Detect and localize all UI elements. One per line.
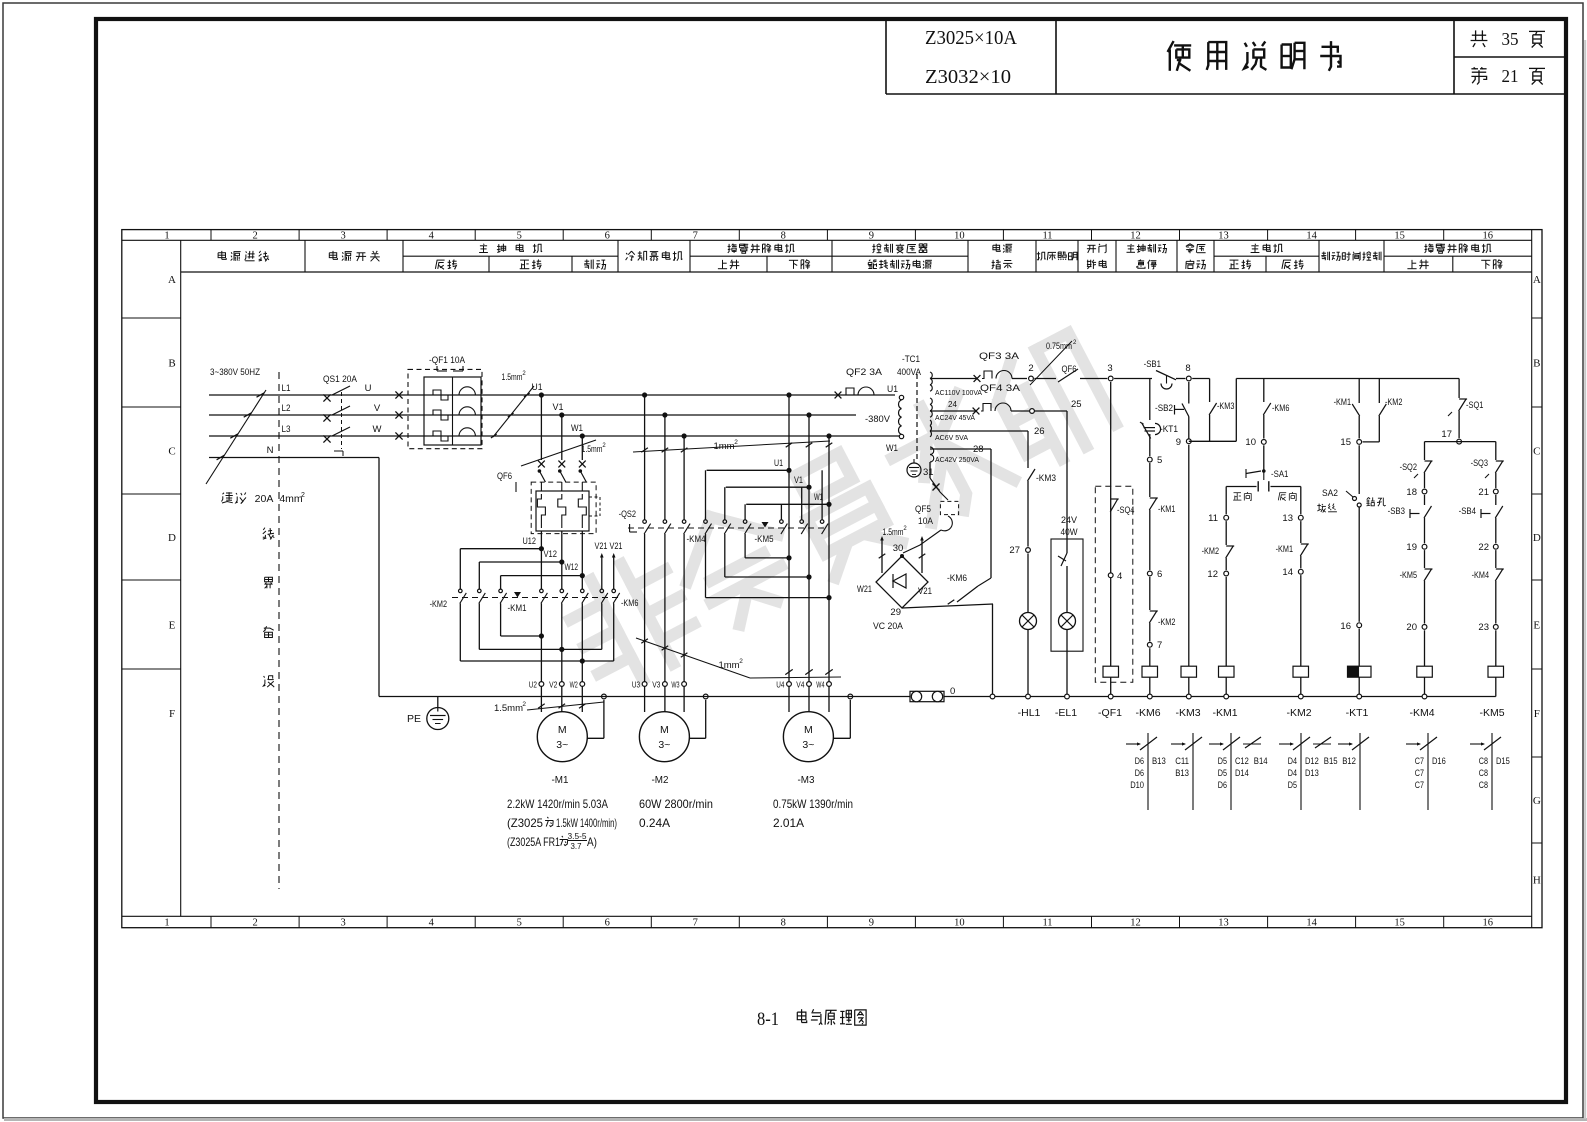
svg-text:-SQ3: -SQ3 <box>1471 458 1488 469</box>
svg-text:-KM2: -KM2 <box>430 599 447 610</box>
svg-text:AC6V 5VA: AC6V 5VA <box>935 433 968 442</box>
svg-text:16: 16 <box>1482 918 1493 929</box>
coil KM1 <box>1219 666 1235 677</box>
svg-text:C7: C7 <box>1415 780 1424 790</box>
svg-text:B: B <box>168 358 175 370</box>
branch 13 KM1 NC to coil KM2 <box>1300 487 1302 515</box>
svg-text:-KT1: -KT1 <box>1160 424 1178 435</box>
contact KM5 NC interlock <box>1424 550 1426 568</box>
svg-text:D5: D5 <box>1218 768 1227 778</box>
svg-text:C12: C12 <box>1235 756 1249 766</box>
svg-text:-QF1: -QF1 <box>1098 707 1122 719</box>
supply boundary dashed line <box>278 372 280 889</box>
svg-text:0: 0 <box>950 686 955 697</box>
svg-text:L3: L3 <box>282 424 291 435</box>
svg-text:9: 9 <box>1176 437 1181 448</box>
svg-text:C8: C8 <box>1479 768 1488 778</box>
svg-text:26: 26 <box>1034 426 1045 437</box>
svg-text:-KM4: -KM4 <box>1472 570 1489 581</box>
earth symbol 31 <box>907 463 921 477</box>
title block <box>885 21 887 94</box>
svg-text:M: M <box>558 724 567 736</box>
svg-text:Z3032×10: Z3032×10 <box>925 66 1011 88</box>
header label 下降 <box>789 260 810 269</box>
rail net9 right section <box>1236 378 1459 380</box>
svg-text:-KM1: -KM1 <box>1158 504 1175 515</box>
svg-text:21: 21 <box>1502 66 1519 86</box>
svg-text:G: G <box>1533 795 1541 807</box>
svg-text:V21: V21 <box>595 541 608 551</box>
svg-text:W3: W3 <box>671 680 679 690</box>
svg-text:2: 2 <box>1028 363 1033 374</box>
svg-text:3.7: 3.7 <box>571 841 582 851</box>
svg-text:6: 6 <box>1157 569 1162 580</box>
wire L1 <box>209 394 895 396</box>
header label 正转 <box>520 259 542 269</box>
svg-text:D4: D4 <box>1288 768 1297 778</box>
svg-text:2: 2 <box>522 701 526 708</box>
svg-text:18: 18 <box>1406 487 1417 498</box>
svg-text:D6: D6 <box>1218 780 1227 790</box>
svg-text:QF4 3A: QF4 3A <box>980 383 1021 394</box>
arm motor feeder taps U1 V1 W1 <box>786 392 791 397</box>
motor breaker QF6 and M1 feeder <box>540 395 542 460</box>
pushbutton SB3 <box>1424 495 1426 505</box>
header label 上升 <box>718 260 739 269</box>
svg-text:13: 13 <box>1218 230 1229 241</box>
svg-text:4: 4 <box>429 230 435 241</box>
svg-text:11: 11 <box>1042 230 1052 241</box>
svg-text:19: 19 <box>1406 542 1417 553</box>
svg-text:D4: D4 <box>1288 756 1297 766</box>
svg-text:8: 8 <box>781 918 786 929</box>
node 9 <box>1186 439 1191 444</box>
M3 earth link <box>848 694 853 699</box>
svg-text:24V: 24V <box>1061 515 1078 526</box>
wire N <box>209 457 379 459</box>
timer contact KT1 <box>1149 379 1151 421</box>
TC1 primary winding <box>899 395 903 399</box>
svg-text:QS1 20A: QS1 20A <box>323 374 358 385</box>
svg-text:28: 28 <box>973 444 984 455</box>
svg-text:C11: C11 <box>1175 756 1189 766</box>
svg-text:1.5mm: 1.5mm <box>883 527 904 537</box>
svg-text:20: 20 <box>1406 622 1417 633</box>
svg-text:6: 6 <box>605 230 610 241</box>
header label 急停 <box>1136 260 1156 270</box>
svg-text:D5: D5 <box>1218 756 1227 766</box>
svg-text:-KM3: -KM3 <box>1175 707 1200 719</box>
svg-text:1.5mm: 1.5mm <box>502 372 523 382</box>
node 30 wire 28 <box>930 448 991 450</box>
svg-text:16: 16 <box>1340 621 1351 632</box>
svg-text:-QS2: -QS2 <box>619 509 636 520</box>
svg-text:E: E <box>169 620 176 632</box>
svg-text:-M3: -M3 <box>798 774 815 786</box>
svg-text:22: 22 <box>1478 542 1489 553</box>
svg-text:12: 12 <box>1130 230 1141 241</box>
node 3 <box>1108 376 1113 381</box>
svg-text:60W 2800r/min: 60W 2800r/min <box>639 797 713 811</box>
contact KM6 NO column 10 <box>1263 379 1265 403</box>
undervoltage QF1 column with SQ4 <box>1110 382 1112 666</box>
svg-text:F: F <box>1534 708 1540 720</box>
coil KM3 <box>1181 666 1197 677</box>
svg-text:Z3025×10A: Z3025×10A <box>925 27 1018 49</box>
svg-text:W1: W1 <box>886 443 898 454</box>
header label 断电 <box>1087 260 1107 269</box>
svg-text:F: F <box>169 708 175 720</box>
contactor KM2 main contacts <box>459 589 463 593</box>
svg-text:35: 35 <box>1502 29 1519 49</box>
svg-text:24: 24 <box>948 399 957 409</box>
svg-text:3~: 3~ <box>658 739 670 751</box>
bus junction circles <box>1108 694 1113 699</box>
coil KM6 <box>1142 666 1158 677</box>
wire 26 6V <box>930 430 1028 432</box>
header label 电源开关 <box>329 251 380 261</box>
svg-text:4mm: 4mm <box>279 493 303 505</box>
contactor KM5 main contacts <box>780 504 782 520</box>
svg-text:-SB3: -SB3 <box>1388 506 1405 517</box>
svg-text:QF5: QF5 <box>915 504 931 515</box>
svg-text:-M1: -M1 <box>552 774 569 786</box>
svg-text:M: M <box>804 724 813 736</box>
node 8 <box>1186 376 1191 381</box>
svg-text:15: 15 <box>1394 230 1405 241</box>
selector SA2 tapping drilling <box>1358 445 1360 494</box>
pushbutton SB4 <box>1495 495 1497 505</box>
contact KM4 NC interlock <box>1495 550 1497 568</box>
cable marks before QF1 <box>395 391 402 398</box>
svg-text:-KM2: -KM2 <box>1158 617 1175 628</box>
svg-text:1: 1 <box>164 918 169 929</box>
motor M1 <box>537 712 587 762</box>
svg-text:14: 14 <box>1282 567 1293 578</box>
svg-text:-KM1: -KM1 <box>1276 544 1293 555</box>
header label 启动 <box>1186 260 1206 269</box>
cable 1mm2 marks lower <box>636 638 750 678</box>
svg-text:-KT1: -KT1 <box>1346 707 1369 719</box>
node 2 and switch QF6 control <box>1029 376 1034 381</box>
drawing frame <box>122 230 1542 928</box>
svg-text:1mm: 1mm <box>718 660 739 671</box>
svg-text:C: C <box>1533 446 1540 458</box>
svg-text:-HL1: -HL1 <box>1018 707 1041 719</box>
svg-text:L2: L2 <box>282 403 291 414</box>
svg-text:14: 14 <box>1306 918 1317 929</box>
title 使用说明书 <box>1168 41 1341 71</box>
svg-text:U2: U2 <box>529 680 537 690</box>
svg-text:7: 7 <box>693 230 698 241</box>
indicator lamp HL1 <box>1020 613 1037 630</box>
svg-text:1.5mm: 1.5mm <box>582 444 603 454</box>
watermark 非会员水印 <box>558 331 1119 696</box>
svg-text:L1: L1 <box>282 383 291 394</box>
svg-text:-380V: -380V <box>865 414 891 425</box>
svg-text:-TC1: -TC1 <box>902 354 920 365</box>
svg-text:15: 15 <box>1394 918 1405 929</box>
svg-text:C8: C8 <box>1479 780 1488 790</box>
coil QF1 <box>1103 666 1119 677</box>
svg-text:-KM6: -KM6 <box>947 573 967 584</box>
svg-text:U1: U1 <box>774 458 783 469</box>
svg-text:D14: D14 <box>1235 768 1249 778</box>
svg-text:D10: D10 <box>1130 780 1144 790</box>
svg-text:V1: V1 <box>553 402 564 413</box>
reversing bottom loop wires <box>501 635 542 637</box>
svg-text:5: 5 <box>517 230 522 241</box>
svg-text:1.5mm: 1.5mm <box>494 703 523 714</box>
svg-text:C8: C8 <box>1479 756 1488 766</box>
selector SA1 <box>1262 469 1266 473</box>
coil KT1 timer <box>1348 666 1372 677</box>
header label 下降 <box>1481 260 1502 269</box>
svg-text:1.5kW 1400r/min): 1.5kW 1400r/min) <box>556 816 617 830</box>
svg-text:10: 10 <box>1245 437 1256 448</box>
svg-text:15: 15 <box>1340 437 1351 448</box>
contact KM6 braking <box>902 604 993 608</box>
svg-text:-SQ2: -SQ2 <box>1400 462 1417 473</box>
svg-text:-KM6: -KM6 <box>621 598 638 609</box>
svg-text:W2: W2 <box>570 680 578 690</box>
contact KM2 NC in KM6 column <box>1149 577 1151 610</box>
svg-text:V4: V4 <box>796 680 804 690</box>
branch 11 KM2 NC to coil KM1 <box>1225 487 1227 515</box>
wire L2 <box>209 414 856 416</box>
cable 1mm2 marks upper <box>633 441 830 452</box>
svg-text:U3: U3 <box>632 680 640 690</box>
svg-text:7: 7 <box>693 918 698 929</box>
svg-text:-QF1 10A: -QF1 10A <box>429 355 466 366</box>
machine light EL1 box <box>1066 411 1068 553</box>
svg-text:10: 10 <box>954 918 965 929</box>
svg-text:V3: V3 <box>652 680 660 690</box>
svg-text:10A: 10A <box>918 516 934 527</box>
svg-text:3: 3 <box>340 918 345 929</box>
svg-text:2.2kW 1420r/min 5.03A: 2.2kW 1420r/min 5.03A <box>507 797 608 811</box>
header label 正转 <box>1229 259 1251 269</box>
svg-text:W12: W12 <box>565 562 579 573</box>
svg-text:QF2 3A: QF2 3A <box>846 367 883 378</box>
svg-text:-M2: -M2 <box>652 774 669 786</box>
svg-text:QF3 3A: QF3 3A <box>979 351 1020 362</box>
svg-text:29: 29 <box>890 607 901 618</box>
svg-text:-SQ1: -SQ1 <box>1466 400 1483 411</box>
svg-text:V2: V2 <box>549 680 557 690</box>
svg-text:21: 21 <box>1478 487 1489 498</box>
header label 制动时间控制 <box>1321 252 1381 261</box>
svg-text:B12: B12 <box>1342 756 1356 766</box>
svg-text:-KM3: -KM3 <box>1217 401 1234 412</box>
coil KM5 <box>1488 666 1504 677</box>
coil KM4 <box>1417 666 1433 677</box>
boundary text 建议20A 4mm2 <box>222 492 247 503</box>
svg-text:2: 2 <box>734 439 738 446</box>
svg-text:A: A <box>168 274 176 286</box>
wire L3 <box>209 435 899 437</box>
svg-text:D6: D6 <box>1135 756 1144 766</box>
svg-text:V21: V21 <box>610 541 623 551</box>
svg-text:D12: D12 <box>1305 756 1319 766</box>
svg-text:V21: V21 <box>918 586 932 597</box>
svg-text:D16: D16 <box>1432 756 1446 766</box>
svg-text:W: W <box>373 424 382 435</box>
contact KM1 NO to node 15 <box>1358 379 1360 404</box>
svg-text:QF6: QF6 <box>497 471 512 482</box>
svg-text:3~380V 50HZ: 3~380V 50HZ <box>210 367 260 378</box>
svg-text:3.5-5: 3.5-5 <box>568 831 587 841</box>
pages 共35页 <box>1471 30 1488 47</box>
node 7 <box>1147 642 1152 647</box>
svg-text:2: 2 <box>252 230 257 241</box>
svg-text:-KM6: -KM6 <box>1272 403 1289 414</box>
wire N drop and 0 bus <box>378 458 380 697</box>
pages 第21页 <box>1471 67 1486 84</box>
svg-text:H: H <box>1533 875 1541 887</box>
header table <box>181 271 1532 273</box>
svg-text:3~: 3~ <box>802 739 814 751</box>
contactor KM1 main contacts <box>540 549 542 589</box>
arm raise lower branches <box>1425 441 1496 443</box>
header label 零压 <box>1186 244 1206 254</box>
svg-text:5: 5 <box>517 918 522 929</box>
svg-text:-SA1: -SA1 <box>1271 469 1288 480</box>
svg-text:D13: D13 <box>1305 768 1319 778</box>
header label 主轴制动 <box>1127 244 1167 253</box>
limit switch SQ3 <box>1495 442 1497 460</box>
svg-text:W1: W1 <box>571 423 583 434</box>
header label 上升 <box>1407 260 1428 269</box>
header label 电源 <box>993 244 1012 253</box>
svg-text:3: 3 <box>340 230 345 241</box>
motor M3 <box>783 712 833 762</box>
header label 机床照明 <box>1037 252 1077 261</box>
svg-text:-KM1: -KM1 <box>1212 707 1237 719</box>
svg-text:17: 17 <box>1441 429 1452 440</box>
svg-text:U12: U12 <box>523 536 537 547</box>
svg-text:D15: D15 <box>1496 756 1510 766</box>
svg-text:-KM3: -KM3 <box>1036 473 1056 484</box>
cable mark 0.75mm2 <box>1030 341 1072 385</box>
svg-text:10: 10 <box>954 230 965 241</box>
svg-text:40W: 40W <box>1061 527 1078 538</box>
svg-text:U1: U1 <box>887 384 898 395</box>
limit switch SQ1 column 17 <box>1458 379 1460 399</box>
svg-text:C7: C7 <box>1415 756 1424 766</box>
svg-text:9: 9 <box>869 918 874 929</box>
header label 指示 <box>992 260 1013 269</box>
svg-text:M: M <box>660 724 669 736</box>
svg-text:V12: V12 <box>544 549 558 560</box>
TC1 secondary windings <box>930 372 932 378</box>
motor M2 terminals U3 V3 W3 <box>642 682 647 687</box>
relay contact KM3 selfhold <box>1209 379 1211 403</box>
svg-text:2.01A: 2.01A <box>773 816 804 830</box>
svg-text:D: D <box>168 532 176 544</box>
svg-text:6: 6 <box>605 918 610 929</box>
rectifier bridge VC <box>900 554 904 558</box>
svg-text:-KM5: -KM5 <box>755 534 774 545</box>
svg-text:8: 8 <box>781 230 786 241</box>
svg-text:VC 20A: VC 20A <box>873 621 904 632</box>
svg-text:25: 25 <box>1071 399 1082 410</box>
svg-text:8-1: 8-1 <box>757 1009 779 1030</box>
header label 主轴电机 <box>479 244 542 253</box>
boundary vertical chars 线界备设 <box>263 528 274 540</box>
contactor KM4 main contacts <box>705 470 707 520</box>
contact KM1 NC in KM6 column <box>1149 463 1151 497</box>
svg-text:QF6: QF6 <box>1062 364 1077 375</box>
svg-text:9: 9 <box>869 230 874 241</box>
svg-text:-KM2: -KM2 <box>1286 707 1311 719</box>
lamp EL1 <box>1059 613 1076 630</box>
motor M3 terminals U4 V4 W4 <box>787 682 792 687</box>
svg-text:0.75mm: 0.75mm <box>1046 341 1072 351</box>
earth terminal PE <box>437 697 439 708</box>
header label 控制变压器 <box>872 244 927 254</box>
svg-text:B15: B15 <box>1324 756 1338 766</box>
svg-text:(Z3025: (Z3025 <box>507 816 543 830</box>
svg-text:16: 16 <box>1482 230 1493 241</box>
header label 反转 <box>1282 259 1303 269</box>
svg-text:8: 8 <box>1185 363 1190 374</box>
svg-text:2: 2 <box>739 658 743 665</box>
svg-text:V1: V1 <box>794 475 803 486</box>
svg-text:A: A <box>1533 274 1541 286</box>
svg-text:7: 7 <box>1157 640 1162 651</box>
svg-text:-SB4: -SB4 <box>1459 506 1476 517</box>
svg-text:D: D <box>1533 532 1541 544</box>
svg-text:N: N <box>267 445 274 456</box>
header label 摇臂升降电机 <box>728 244 795 254</box>
svg-text:3: 3 <box>1107 363 1112 374</box>
svg-text:-KM2: -KM2 <box>1202 546 1219 557</box>
header label 冷却泵电机 <box>626 251 683 261</box>
cable mark 1.5mm2 at QF6 <box>521 440 596 466</box>
svg-text:-KM5: -KM5 <box>1479 707 1504 719</box>
svg-text:-SB1: -SB1 <box>1144 359 1161 370</box>
svg-text:B: B <box>1533 358 1540 370</box>
KM4 KM5 crossover loops <box>745 557 789 559</box>
svg-text:-SB2: -SB2 <box>1155 403 1173 414</box>
contact KM2 NO parallel <box>1378 379 1380 404</box>
motor M2 <box>639 712 689 762</box>
svg-text:-KM5: -KM5 <box>1400 570 1417 581</box>
svg-text:0.24A: 0.24A <box>639 816 670 830</box>
svg-text:-KM2: -KM2 <box>1385 397 1402 408</box>
pushbutton SB2 <box>1188 382 1190 404</box>
svg-text:-KM4: -KM4 <box>687 534 706 545</box>
lamp HL1 column with KM3 contact <box>1027 431 1029 468</box>
svg-text:13: 13 <box>1282 513 1293 524</box>
node 6 <box>1147 571 1152 576</box>
svg-text:U1: U1 <box>532 382 543 393</box>
svg-text:400VA: 400VA <box>897 367 922 378</box>
svg-text:11: 11 <box>1042 918 1052 929</box>
svg-text:B14: B14 <box>1254 756 1268 766</box>
svg-text:C7: C7 <box>1415 768 1424 778</box>
svg-text:B13: B13 <box>1175 768 1189 778</box>
svg-text:12: 12 <box>1207 569 1218 580</box>
svg-text:4: 4 <box>429 918 435 929</box>
svg-text:13: 13 <box>1218 918 1229 929</box>
svg-text:W4: W4 <box>816 680 824 690</box>
svg-text:2: 2 <box>301 492 305 499</box>
svg-text:30: 30 <box>893 543 904 554</box>
svg-text:-KM4: -KM4 <box>1409 707 1434 719</box>
svg-text:PE: PE <box>407 713 421 725</box>
